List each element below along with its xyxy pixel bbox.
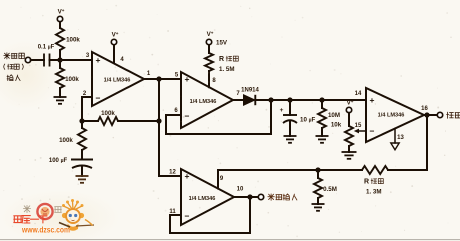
terminal J2 audio output [258, 194, 263, 199]
label R5 value 10M [328, 112, 340, 119]
node N7 junction R5 [319, 97, 324, 102]
wire U3 output to control terminal [424, 114, 437, 116]
wire U2 output to diode [233, 99, 244, 101]
wire P4 to VR1 [348, 113, 350, 126]
label input Chinese line1 (麦克风) [4, 53, 25, 59]
svg-text:100 µF: 100 µF [49, 158, 68, 164]
U3 plus sign [370, 95, 375, 105]
node N2 junction [79, 118, 84, 123]
wire node N3 down to node N4 [158, 79, 160, 121]
capacitor C3 10uF electrolytic [283, 115, 297, 123]
wire C3 to ground [289, 122, 291, 136]
diode D1 1N914 [244, 95, 256, 105]
svg-text:16: 16 [421, 106, 428, 112]
potentiometer VR1 10k [345, 126, 353, 146]
resistor R1 100k [56, 28, 64, 50]
watermark faint char right [55, 207, 62, 213]
svg-text:1. 3M: 1. 3M [366, 189, 381, 196]
capacitor C2 100uF [71, 160, 93, 169]
U3 pin 16 label [421, 106, 428, 112]
label C3 value 10uF [300, 117, 316, 124]
svg-text:12: 12 [169, 170, 176, 176]
label control output Chinese (控制端) [447, 112, 460, 118]
svg-text:0.1 µF: 0.1 µF [38, 45, 55, 51]
U3 pin 13 label [397, 135, 404, 141]
U3 pin 15 label [355, 123, 362, 129]
watermark faint char left [23, 205, 30, 212]
svg-text:1. 5M: 1. 5M [219, 66, 234, 73]
svg-text:www.dzsc.com: www.dzsc.com [21, 225, 70, 235]
svg-text:1N914: 1N914 [241, 88, 259, 94]
node N8 junction control out [424, 112, 429, 117]
label R4 value 100k [101, 110, 115, 117]
U2 minus sign [185, 111, 190, 121]
svg-text:−: − [96, 93, 101, 103]
svg-text:10 µF: 10 µF [300, 117, 316, 124]
ground GND1 [54, 97, 67, 104]
wire U1 output to U2 pin5 [144, 78, 181, 80]
watermark dzsc logo ring [37, 204, 52, 219]
U4 pin 12 label [169, 170, 176, 176]
U4 pin 9 wire to bottom rail [217, 170, 219, 189]
power V+ terminal P4 [346, 99, 353, 113]
resistor R3 100k [78, 128, 86, 150]
svg-text:R: R [364, 179, 369, 186]
U1 plus sign [96, 55, 101, 65]
label U2 1/4 LM346 [190, 99, 217, 105]
U1 pin 4 wire to V+ [113, 45, 115, 63]
VR1 wiper arrow [354, 129, 366, 134]
terminal J1 microphone input [25, 57, 30, 62]
label Rset1 value 1.5M [219, 66, 234, 73]
U3 pin 13 arrow symbol [391, 143, 399, 150]
wire N2 to R3 [81, 121, 83, 128]
U1 pin 4 label [120, 57, 124, 63]
resistor R2 100k [56, 68, 64, 88]
node N3 junction U1 out [156, 76, 161, 81]
wire P1 to R1 [59, 22, 61, 28]
svg-text:−: − [185, 111, 190, 121]
wire R6 to ground [317, 198, 319, 204]
U4 minus sign [185, 211, 190, 221]
wire C2 to ground [81, 167, 83, 176]
label R2 value 100k [65, 76, 79, 83]
node N6 junction C3 [287, 97, 292, 102]
ground GND6 [312, 204, 325, 211]
scan bottom edge line [0, 239, 460, 241]
resistor Rset2 1.3M [362, 166, 388, 174]
U2 plus sign [185, 74, 190, 84]
label C3 plus sign [280, 107, 284, 114]
svg-text:14: 14 [355, 91, 362, 97]
wire J1 to C1 [31, 59, 44, 61]
label Rset1 R (set) [219, 56, 238, 63]
label U1 1/4 LM346 [104, 78, 131, 84]
wire U4 output to audio terminal [234, 196, 258, 198]
svg-text:10M: 10M [328, 112, 340, 119]
svg-text:R: R [219, 56, 224, 63]
node N9 junction 0.5M [315, 167, 320, 172]
svg-text:10k: 10k [331, 122, 342, 129]
power V+ 15V terminal P3 [206, 30, 213, 44]
label input Chinese line2 (话筒) [4, 64, 24, 69]
U2 pin 8 label [212, 78, 216, 84]
U2 pin 5 label [175, 73, 179, 79]
U4 pin 10 label [237, 187, 244, 193]
wire R1 to N1 [59, 50, 61, 60]
svg-text:100k: 100k [66, 37, 80, 44]
svg-text:+: + [185, 171, 190, 181]
U3 minus sign [370, 126, 375, 136]
op-amp U1 1/4 LM346 [92, 52, 144, 106]
U2 pin 6 label [174, 108, 178, 114]
ground GND4 [316, 136, 329, 143]
label U4 1/4 LM346 [189, 196, 216, 202]
label P3 15V [216, 40, 228, 47]
wire rail to R5 [321, 100, 323, 108]
label C1 value 0.1uF [38, 45, 55, 51]
U1 pin 2 label [83, 91, 87, 97]
resistor R5 10M [318, 108, 326, 128]
watermark mascot figure [59, 199, 94, 231]
label D1 1N914 [241, 88, 259, 94]
wire U4 pin11 feedback loop [170, 197, 250, 233]
svg-text:1/4 LM346: 1/4 LM346 [104, 78, 131, 84]
watermark text www.dzsc.com [21, 225, 70, 235]
svg-text:13: 13 [397, 135, 404, 141]
wire C3 from rail [289, 100, 291, 115]
wire U2 pin6 feedback loop [166, 100, 271, 134]
svg-text:1/4 LM346: 1/4 LM346 [189, 196, 216, 202]
label Rset2 value 1.3M [366, 189, 381, 196]
label R3 value 100k [59, 137, 73, 144]
svg-text:1/4 LM346: 1/4 LM346 [190, 99, 217, 105]
U1 minus sign [96, 93, 101, 103]
terminal J3 control output [437, 112, 442, 117]
node N10 junction audio out [247, 194, 252, 199]
node N5 junction loop [268, 97, 273, 102]
label R1 value 100k [66, 37, 80, 44]
svg-text:+: + [280, 107, 284, 114]
power V+ terminal P2 [111, 31, 118, 45]
label audio output Chinese (音频输出) [268, 194, 297, 200]
op-amp U3 1/4 LM346 [366, 88, 424, 142]
resistor Rset1 1.5M [205, 45, 213, 71]
U1 pin 1 label [147, 71, 151, 77]
svg-text:100k: 100k [65, 76, 79, 83]
ground GND2 [76, 176, 89, 183]
svg-text:100k: 100k [59, 137, 73, 144]
wire node N4 down to U4 pin12 [159, 121, 181, 176]
label C2 value 100uF [49, 158, 68, 164]
wire U2 pin8 to Rset1 [208, 71, 210, 87]
wire D1 cathode rail to U3 pin14 [255, 99, 366, 101]
wire N8 down to bottom rail [426, 115, 428, 170]
wire R2 to ground [59, 88, 61, 97]
svg-text:+: + [96, 55, 101, 65]
wire bottom rail left part [218, 169, 362, 171]
wire N1 to R2 [59, 60, 61, 68]
svg-text:1/4 LM346: 1/4 LM346 [378, 113, 405, 119]
power V+ terminal P1 [57, 8, 64, 22]
wire VR1 to ground [348, 146, 350, 152]
watermark text 维库一下 [14, 216, 47, 223]
op-amp U4 1/4 LM346 [181, 169, 234, 225]
svg-text:+: + [185, 74, 190, 84]
label U3 1/4 LM346 [378, 113, 405, 119]
ground GND5 [342, 152, 357, 159]
label input Chinese line3 (输入) [7, 75, 20, 81]
U4 pin 9 label [220, 176, 224, 182]
wire C1 to node N1 to U1 pin3 [50, 59, 93, 61]
label R6 value 0.5M [323, 186, 337, 193]
op-amp U2 1/4 LM346 [181, 72, 233, 128]
svg-text:10: 10 [237, 187, 244, 193]
U3 pin 14 label [355, 91, 362, 97]
svg-text:15V: 15V [216, 40, 228, 47]
U4 plus sign [185, 171, 190, 181]
ground GND3 [284, 136, 297, 143]
svg-text:15: 15 [355, 123, 362, 129]
wire R3 to C2 [81, 150, 83, 160]
svg-text:100k: 100k [101, 110, 115, 117]
label Rset2 R (set) [364, 179, 383, 186]
svg-text:−: − [185, 211, 190, 221]
svg-text:0.5M: 0.5M [323, 186, 337, 193]
wire R5 to ground [321, 128, 323, 136]
U4 pin 11 label [169, 209, 176, 215]
U2 pin 7 label [236, 91, 240, 97]
U3 pin 13 wire [394, 129, 396, 144]
resistor R6 0.5M [314, 178, 322, 198]
U1 pin 3 label [86, 53, 90, 59]
label VR1 value 10k [331, 122, 342, 129]
capacitor C1 0.1uF [44, 54, 50, 67]
svg-text:−: − [370, 126, 375, 136]
node N4 junction [156, 118, 161, 123]
resistor R4 100k feedback [82, 117, 159, 125]
wire U1 pin2 to node N2 [82, 97, 92, 121]
node N1 junction [57, 57, 62, 62]
wire N9 to R6 [317, 170, 319, 178]
wire bottom rail right part [388, 169, 427, 171]
svg-text:+: + [370, 95, 375, 105]
